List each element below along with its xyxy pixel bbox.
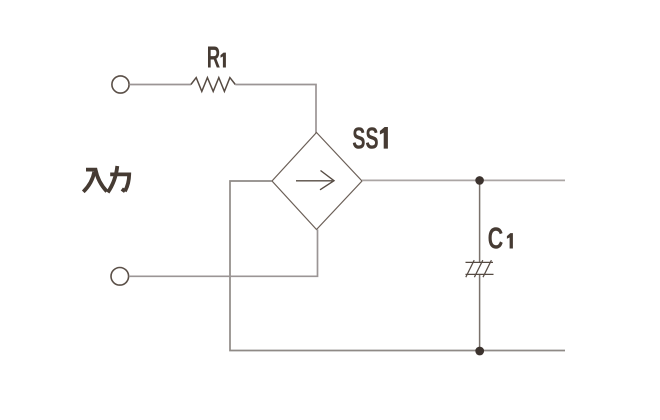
svg-text:C: C xyxy=(488,221,504,256)
svg-text:SS: SS xyxy=(352,120,378,156)
svg-text:R: R xyxy=(207,41,220,75)
